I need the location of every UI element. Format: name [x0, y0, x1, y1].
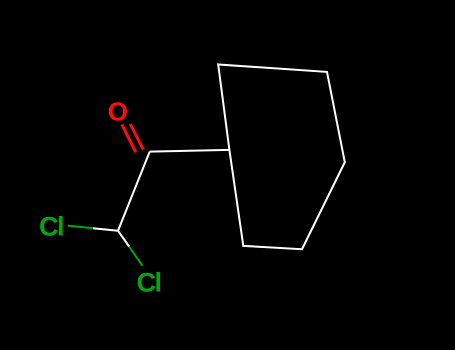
bond C=O double bond line 2 (red) [130, 124, 143, 150]
bond CHCl2 to left Cl, green half [68, 226, 93, 229]
bond carbonyl C to CHCl2 carbon (white) [118, 152, 150, 231]
svg-text:Cl: Cl [137, 267, 161, 297]
bond carbonyl C to ring (white horizontal) [150, 150, 230, 152]
bond C=O double bond line 1 (red) [122, 124, 136, 152]
svg-text:Cl: Cl [39, 211, 63, 241]
bond CHCl2 to left Cl, white half [93, 228, 118, 231]
bond CHCl2 to bottom Cl, white half [118, 231, 129, 247]
svg-text:O: O [108, 96, 128, 126]
bond CHCl2 to bottom Cl, green half [129, 247, 142, 266]
ring cyclohexane (white polygon) [218, 65, 345, 250]
